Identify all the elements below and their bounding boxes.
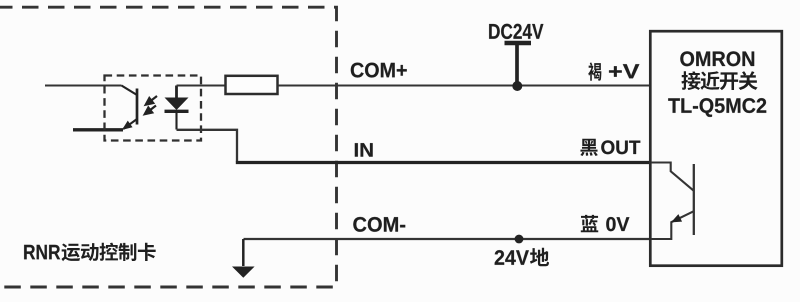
wire: COM- net [244,238,652,240]
wire: COM+ input to optocoupler collector [45,84,122,86]
output transistor Q1 (NPN, inside OMRON box) [651,163,694,240]
wire: COM+ net, resistor to OMRON +V pin [278,84,652,86]
label brown +V (褐 +V) [588,62,639,80]
light arrows (LED to transistor) [144,96,157,115]
label: RNR motion control card (RNR运动控制卡) [24,243,156,262]
label DC24V [489,24,543,39]
resistor (current limiting) [226,76,278,94]
label COM- [353,217,405,232]
OMRON proximity switch box [650,31,782,266]
wire: IN net (thick) [236,161,651,164]
label blue 0V (蓝 0V) [581,215,630,232]
label proximity switch (接近开关) [681,71,757,90]
optocoupler LED [165,86,189,130]
junction dot: 24V ground tap [515,235,524,244]
wire: LED cathode to IN line (corner) [177,130,238,162]
ground symbol [232,239,255,278]
wire: optocoupler emitter return (thick) [73,128,123,131]
optocoupler phototransistor [122,86,138,129]
wire: LED anode to resistor [177,84,227,86]
DC24V supply symbol [505,43,532,86]
junction dot: DC24V tap on COM+ [512,81,522,91]
label TL-Q5MC2 [668,98,766,117]
label OMRON [680,51,754,66]
label black OUT (黑OUT) [580,139,640,156]
dashed enclosure: RNR motion control card [0,7,337,287]
optocoupler U1 dashed body [105,76,202,141]
label IN [355,143,373,156]
label 24V ground (24V地) [495,248,549,266]
label COM+ [351,63,407,78]
